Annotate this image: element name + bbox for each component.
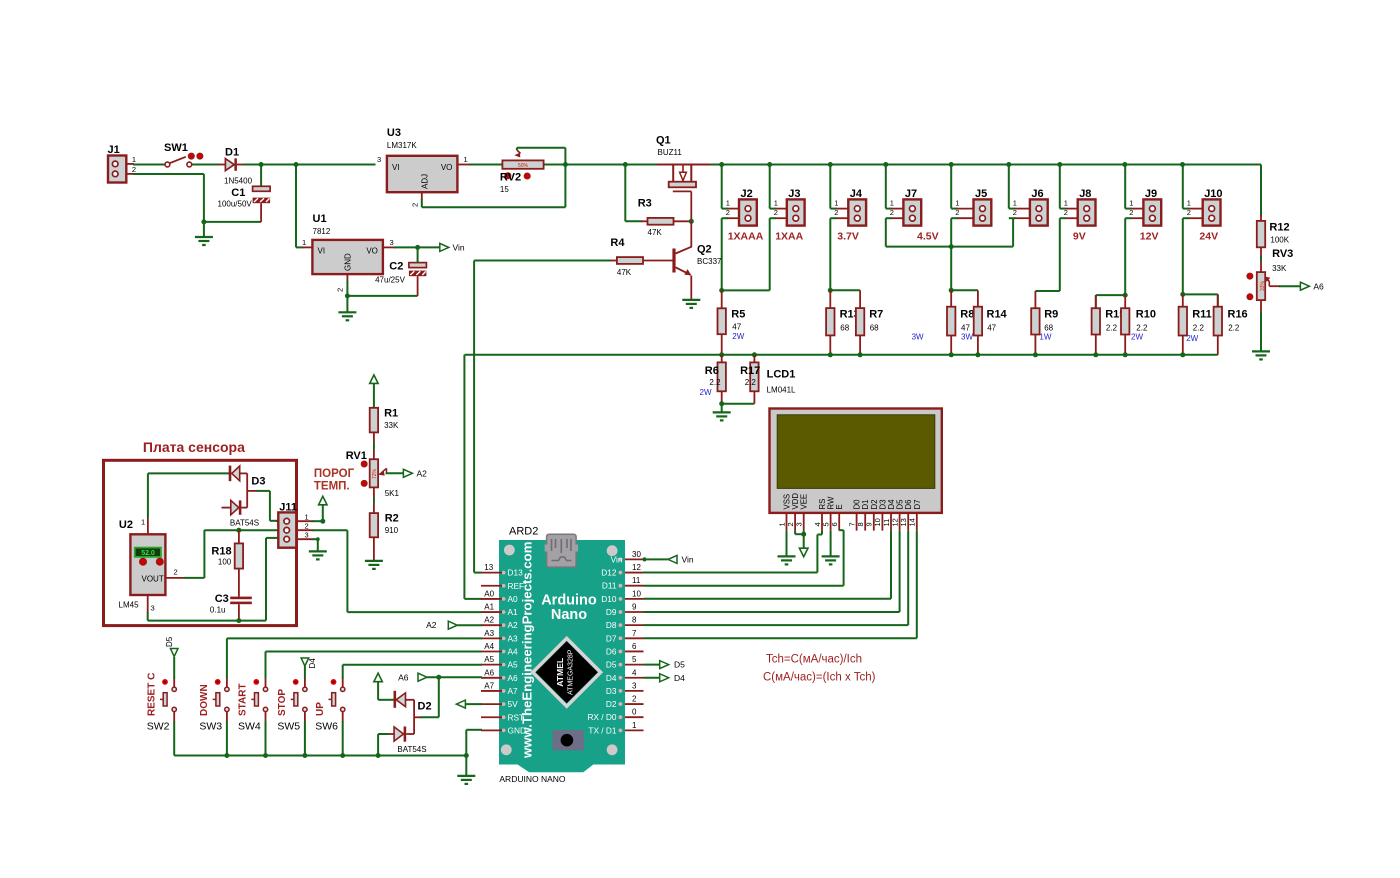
wire: C1 top lead [260, 165, 262, 187]
svg-text:A3: A3 [484, 629, 494, 638]
svg-text:A2: A2 [426, 620, 437, 630]
ground (R2) [365, 561, 383, 569]
svg-text:1: 1 [774, 199, 778, 208]
svg-text:2: 2 [774, 208, 778, 217]
svg-text:3.7V: 3.7V [837, 231, 859, 243]
wire: LCD D6 to Arduino D8 [644, 531, 909, 626]
svg-text:ПОРОГ: ПОРОГ [314, 468, 355, 480]
resistor R9 [1031, 291, 1058, 355]
svg-text:A7: A7 [508, 686, 519, 696]
wire: RV3 bottom to ground [1260, 300, 1262, 351]
power arrow down (VEE) [799, 548, 808, 557]
svg-text:47: 47 [732, 323, 741, 332]
svg-text:2: 2 [1013, 208, 1017, 217]
svg-text:33K: 33K [1272, 264, 1287, 273]
wire: LCD E to Arduino D11 [644, 530, 844, 586]
junction rail taps [224, 753, 229, 758]
wire: button common rail [174, 721, 466, 756]
svg-text:D8: D8 [606, 620, 617, 630]
wire: LCD VSS to ground [786, 531, 788, 557]
wire: D5 tag [644, 664, 660, 666]
resistor R1 [370, 408, 399, 433]
svg-text:VEE: VEE [800, 494, 809, 510]
svg-text:J3: J3 [788, 188, 800, 200]
svg-text:12: 12 [632, 563, 641, 572]
svg-text:A2: A2 [417, 469, 428, 479]
svg-text:D7: D7 [606, 633, 617, 643]
LCD display LCD1 (LM041L) [767, 369, 942, 531]
svg-text:1: 1 [1129, 199, 1133, 208]
potentiometer RV3 [1247, 248, 1293, 300]
left pin net labels [484, 563, 494, 690]
junction A6 / D2 [436, 675, 441, 680]
svg-text:14: 14 [908, 518, 917, 526]
svg-text:2: 2 [726, 208, 730, 217]
svg-text:1: 1 [890, 199, 894, 208]
svg-text:A2: A2 [484, 616, 494, 625]
svg-text:3W: 3W [961, 333, 973, 342]
resistor R4 [474, 237, 672, 277]
svg-text:U2: U2 [119, 519, 133, 531]
svg-text:1: 1 [141, 518, 145, 527]
junction J11 pin1 [320, 519, 325, 524]
resistor R17 [740, 355, 760, 404]
wire: J7/J6 negative 4.5V row [886, 218, 1013, 290]
svg-text:Q1: Q1 [656, 135, 671, 147]
svg-text:2.2: 2.2 [1193, 324, 1205, 333]
wire: U3 VO to RV2 [457, 164, 502, 166]
wire: R1 to RV1 [373, 432, 375, 459]
junction U1 ground node [345, 293, 350, 298]
svg-text:2.2: 2.2 [745, 378, 757, 387]
wire: D2 mid to A6 net [414, 677, 439, 717]
junction R18 tap [236, 528, 241, 533]
junction Vin stub [642, 557, 646, 561]
svg-text:1: 1 [632, 721, 637, 730]
svg-text:C1: C1 [231, 187, 245, 199]
svg-text:A1: A1 [484, 603, 494, 612]
svg-text:47u/25V: 47u/25V [375, 276, 405, 285]
svg-text:Q2: Q2 [697, 244, 712, 256]
svg-text:J10: J10 [1204, 188, 1222, 200]
svg-text:RV2: RV2 [500, 172, 521, 184]
svg-text:A6: A6 [484, 668, 494, 677]
svg-text:3W: 3W [912, 333, 924, 342]
svg-text:2: 2 [336, 288, 345, 292]
svg-text:9V: 9V [1073, 231, 1086, 243]
svg-text:1: 1 [302, 238, 306, 247]
svg-text:Vin: Vin [611, 554, 623, 564]
wire: LCD RS to Arduino D12 [644, 531, 823, 573]
wire: SW6 to A5 [343, 665, 482, 679]
resistor R13 [826, 290, 860, 355]
ground (shunt) [713, 412, 731, 420]
svg-text:RV3: RV3 [1272, 248, 1293, 260]
svg-text:1XAAA: 1XAAA [728, 231, 764, 243]
microcontroller U (ATMEGA328P) [533, 638, 601, 706]
svg-text:Nano: Nano [551, 607, 587, 623]
wire: RV3 wiper to A6 tag [1269, 285, 1300, 287]
svg-text:1N5400: 1N5400 [224, 177, 253, 186]
terminal arrow Vin (input) [668, 555, 677, 563]
svg-text:2: 2 [174, 568, 178, 577]
svg-text:2: 2 [1187, 208, 1191, 217]
svg-text:4: 4 [632, 668, 637, 677]
svg-text:VI: VI [392, 163, 400, 172]
svg-text:100K: 100K [1270, 236, 1289, 245]
svg-text:R9: R9 [1044, 309, 1058, 321]
svg-text:ADJ: ADJ [421, 174, 430, 189]
svg-text:D4: D4 [308, 658, 317, 669]
svg-text:GND: GND [508, 725, 526, 735]
svg-text:50%: 50% [518, 163, 529, 169]
svg-text:Плата сенсора: Плата сенсора [143, 439, 245, 455]
wire: J11 pin3 to grounds [296, 539, 318, 551]
svg-text:J9: J9 [1145, 188, 1157, 200]
wire: D3 common to J11 pin1 [247, 491, 287, 521]
svg-text:GND: GND [344, 253, 353, 271]
svg-text:47: 47 [987, 324, 996, 333]
connector J6 [1009, 165, 1048, 226]
wire: rail to ground [465, 756, 467, 776]
push button SW2 (RESET C) [146, 673, 176, 733]
svg-text:1: 1 [132, 155, 136, 164]
svg-text:D5: D5 [674, 660, 685, 670]
svg-text:52.0: 52.0 [141, 550, 155, 557]
wire: RV2 wiper loop [517, 148, 566, 165]
svg-text:A2: A2 [508, 620, 519, 630]
wire: SW2 to D5 tag [173, 657, 175, 679]
svg-text:VI: VI [318, 247, 326, 256]
svg-text:33%: 33% [1260, 280, 1266, 291]
potentiometer RV1 [346, 450, 400, 498]
right pin numbers [632, 550, 641, 730]
wire: LCD VDD/VEE node [795, 531, 804, 549]
svg-text:24V: 24V [1199, 231, 1218, 243]
junction 4.5V row [949, 244, 954, 249]
svg-text:D10: D10 [601, 594, 617, 604]
svg-text:SW5: SW5 [277, 721, 300, 733]
connector J8 [1060, 165, 1096, 226]
svg-text:ARDUINO NANO: ARDUINO NANO [499, 774, 566, 784]
wire: D4 tag [644, 677, 660, 679]
svg-text:BC337: BC337 [697, 257, 722, 266]
svg-text:A4: A4 [508, 647, 519, 657]
svg-text:RESET C: RESET C [146, 673, 157, 716]
wire: SW4 to A4 [266, 652, 483, 679]
svg-text:R4: R4 [610, 237, 625, 249]
ground (RV3) [1252, 351, 1270, 359]
svg-text:SW1: SW1 [164, 142, 188, 154]
svg-text:C3: C3 [215, 593, 229, 605]
svg-text:2W: 2W [732, 332, 744, 341]
svg-text:R10: R10 [1136, 309, 1156, 321]
svg-text:D5: D5 [606, 660, 617, 670]
ground (buttons) [457, 776, 475, 784]
svg-text:ARD2: ARD2 [509, 526, 538, 538]
wire: J11 pin1 to +5V [296, 505, 323, 521]
svg-text:R12: R12 [1269, 222, 1289, 234]
svg-text:68: 68 [1044, 324, 1053, 333]
ground (Q2 emitter) [682, 300, 700, 308]
connector J11 [278, 502, 308, 548]
svg-text:3: 3 [632, 681, 637, 690]
connector J3 [770, 165, 805, 226]
svg-text:A3: A3 [508, 633, 519, 643]
wire: R6/R17 bottom to ground [722, 404, 755, 413]
wire: LCD D7 to Arduino D7 [644, 531, 917, 639]
svg-text:R18: R18 [211, 546, 231, 558]
dual diode D2 (BAT54S) [388, 691, 432, 754]
resistor R6 [700, 355, 726, 404]
svg-text:68: 68 [840, 324, 849, 333]
svg-text:2: 2 [890, 208, 894, 217]
svg-text:12V: 12V [1140, 231, 1159, 243]
svg-text:11: 11 [632, 576, 641, 585]
junction R8 top [949, 288, 954, 293]
svg-text:R14: R14 [987, 309, 1008, 321]
connector J5 [951, 165, 991, 226]
svg-text:47K: 47K [648, 228, 663, 237]
junction VDD/VEE [801, 532, 806, 537]
svg-text:R6: R6 [705, 365, 719, 377]
svg-text:R11: R11 [1192, 309, 1212, 321]
svg-text:ТЕМП.: ТЕМП. [314, 481, 350, 493]
terminal arrow Vin (output) [440, 243, 449, 251]
svg-text:2.2: 2.2 [709, 378, 721, 387]
svg-text:BAT54S: BAT54S [397, 745, 426, 754]
capacitor C1 [218, 186, 271, 208]
wire: C2 top lead [417, 247, 419, 262]
wire: R2 to ground [373, 537, 375, 561]
push button SW5 (STOP) [277, 678, 307, 733]
junction R6 bottom [719, 401, 724, 406]
push button SW3 (DOWN) [199, 678, 229, 733]
svg-text:BAT54S: BAT54S [230, 519, 259, 528]
svg-text:1: 1 [726, 199, 730, 208]
svg-text:5V: 5V [508, 699, 519, 709]
svg-text:8: 8 [632, 616, 637, 625]
svg-text:100: 100 [218, 558, 232, 567]
svg-text:LM041L: LM041L [767, 386, 796, 395]
terminal arrow D5 (down) [170, 649, 178, 657]
ground (7812) [338, 312, 356, 320]
svg-text:D12: D12 [601, 568, 617, 578]
wire: Vout tag from U1 [383, 246, 440, 248]
svg-text:2: 2 [834, 208, 838, 217]
svg-text:A0: A0 [508, 594, 519, 604]
svg-text:33K: 33K [384, 421, 399, 430]
wire: board ground return [148, 538, 279, 621]
svg-text:D4: D4 [606, 673, 617, 683]
svg-text:REF: REF [508, 581, 525, 591]
junction RV2 output [563, 162, 568, 167]
power arrow (D2 top) [374, 673, 382, 682]
svg-text:J1: J1 [108, 144, 120, 156]
wire: D2 bottom to rail [378, 734, 389, 756]
Arduino right pin stubs [625, 559, 644, 730]
Arduino Nano module ARD2 [499, 526, 625, 785]
wire: SW1 to D1 anode [192, 164, 226, 166]
svg-text:J6: J6 [1031, 188, 1043, 200]
svg-text:LM45: LM45 [119, 601, 140, 610]
svg-text:D11: D11 [602, 581, 617, 591]
svg-text:A1: A1 [508, 607, 519, 617]
svg-text:15: 15 [500, 185, 509, 194]
svg-text:A7: A7 [484, 681, 494, 690]
wire: J10 negative to R11/R16 [1183, 218, 1218, 307]
transistor Q2 (BC337) [674, 221, 722, 300]
svg-text:30: 30 [632, 550, 641, 559]
svg-text:D2: D2 [606, 699, 617, 709]
svg-text:2.2: 2.2 [1106, 324, 1118, 333]
junction R10 top [1123, 293, 1128, 298]
svg-text:2W: 2W [700, 388, 712, 397]
svg-text:J7: J7 [905, 188, 917, 200]
svg-text:LCD1: LCD1 [767, 369, 796, 381]
svg-text:3: 3 [151, 604, 155, 613]
connector J1 [108, 144, 137, 183]
ground (LCD RW) [822, 556, 840, 564]
wire: rectified +V node D1 to U3 VI [237, 164, 376, 166]
svg-text:100u/50V: 100u/50V [218, 200, 253, 209]
wire: rail to Arduino GND [466, 730, 482, 756]
junction U1 tap [294, 162, 299, 167]
svg-text:68: 68 [870, 324, 879, 333]
terminal arrow A2 (output) [403, 469, 412, 477]
svg-text:C2: C2 [389, 261, 403, 273]
wire: J1 pin2 / C1 negative to ground [126, 174, 261, 237]
resistor R10 [1121, 295, 1156, 355]
wire: U3 ADJ loop [422, 165, 566, 208]
svg-text:D7: D7 [913, 500, 922, 510]
svg-text:3: 3 [390, 238, 394, 247]
junction R13 top [828, 288, 833, 293]
wire: J2/J3 negative to R5 [722, 218, 770, 290]
connector J10 [1183, 165, 1223, 226]
wire: J1 pin1 to SW1 [126, 163, 165, 166]
svg-text:R7: R7 [869, 309, 883, 321]
wire: A2 input tag to pin A2 [426, 620, 482, 630]
svg-text:1: 1 [955, 199, 959, 208]
svg-text:STOP: STOP [277, 689, 288, 716]
wire: Vin pin tag [644, 558, 669, 560]
svg-text:R2: R2 [385, 513, 399, 525]
terminal arrow D5 [660, 661, 669, 669]
svg-text:VOUT: VOUT [142, 575, 164, 584]
resistor R18 [211, 530, 243, 596]
connector J4 [830, 165, 866, 226]
connector J9 [1125, 165, 1161, 226]
svg-text:U3: U3 [387, 127, 401, 139]
wire: LCD D4 to Arduino D10 [644, 531, 892, 599]
svg-text:U1: U1 [313, 213, 327, 225]
svg-text:2: 2 [955, 208, 959, 217]
wire: RV1 to R2 [373, 487, 375, 513]
svg-text:A0: A0 [484, 589, 494, 598]
push button SW4 (START) [238, 678, 268, 733]
svg-text:D13: D13 [508, 568, 524, 578]
svg-text:1XAA: 1XAA [775, 231, 803, 243]
dual diode D3 (BAT54S) [222, 466, 266, 528]
svg-text:D3: D3 [606, 686, 617, 696]
svg-text:R16: R16 [1228, 309, 1248, 321]
wire: shunt bottom rail to A0 [464, 355, 1217, 599]
svg-text:TX / D1: TX / D1 [588, 725, 617, 735]
svg-text:13: 13 [484, 563, 493, 572]
svg-text:9: 9 [632, 603, 637, 612]
svg-text:Vin: Vin [453, 243, 465, 253]
capacitor C2 [375, 261, 426, 285]
svg-text:BUZ11: BUZ11 [658, 148, 683, 157]
svg-text:7812: 7812 [313, 227, 331, 236]
svg-text:A5: A5 [484, 655, 494, 664]
svg-text:2.2: 2.2 [1136, 324, 1148, 333]
power arrow (J11) [319, 496, 327, 505]
junction R5 top [719, 288, 724, 293]
junction rail taps [623, 162, 628, 167]
svg-text:RX / D0: RX / D0 [587, 712, 616, 722]
svg-text:E: E [835, 504, 844, 509]
svg-text:D1: D1 [225, 147, 239, 159]
svg-text:2: 2 [632, 695, 637, 704]
svg-text:72%: 72% [372, 468, 378, 479]
wire: power to D2 cathode [378, 682, 394, 700]
svg-text:DOWN: DOWN [199, 684, 210, 716]
svg-text:1: 1 [1187, 199, 1191, 208]
wire: +V to U1 VI [296, 165, 312, 248]
svg-text:J2: J2 [741, 188, 753, 200]
svg-text:D5: D5 [165, 636, 174, 647]
svg-text:2: 2 [1064, 208, 1068, 217]
wire: J8 negative to R9 [1035, 218, 1059, 291]
resistor R11 [1179, 294, 1212, 354]
junction C3 / board ground [236, 618, 241, 623]
resistor R15 [1092, 295, 1126, 355]
regulator U3 (LM317K) [377, 127, 468, 207]
wire: J9 negative to R15/R10 [1096, 218, 1125, 308]
diode D1 [224, 147, 253, 186]
junction R11 top [1180, 292, 1185, 297]
svg-text:A4: A4 [484, 642, 494, 651]
wire: Q1 gate node [690, 191, 692, 221]
temperature sensor U2 (LM45) [119, 518, 178, 613]
svg-text:3: 3 [305, 531, 309, 540]
svg-text:A6: A6 [398, 673, 409, 683]
svg-text:3: 3 [795, 522, 804, 526]
svg-text:SW3: SW3 [199, 721, 222, 733]
push button SW6 (UP) [315, 678, 345, 733]
svg-text:2W: 2W [1186, 334, 1198, 343]
svg-text:J4: J4 [850, 188, 863, 200]
svg-text:5: 5 [632, 655, 637, 664]
sensor board outline [104, 460, 297, 625]
junction C2 tap [415, 245, 420, 250]
svg-text:R3: R3 [638, 198, 652, 210]
wire: SW5 to D4 tag [304, 666, 306, 679]
svg-text:910: 910 [385, 526, 399, 535]
svg-text:Vin: Vin [682, 555, 694, 565]
svg-text:6: 6 [632, 642, 637, 651]
svg-text:VO: VO [441, 163, 453, 172]
svg-text:47: 47 [961, 324, 970, 333]
svg-text:R17: R17 [740, 365, 760, 377]
resistor R7 [856, 290, 883, 355]
svg-text:1: 1 [1013, 199, 1017, 208]
wire: U2 pin1 to D3 [148, 473, 229, 534]
terminal arrow A6 (output) [1300, 282, 1309, 290]
wire: U1 GND / C2 bottom to ground [347, 274, 417, 312]
